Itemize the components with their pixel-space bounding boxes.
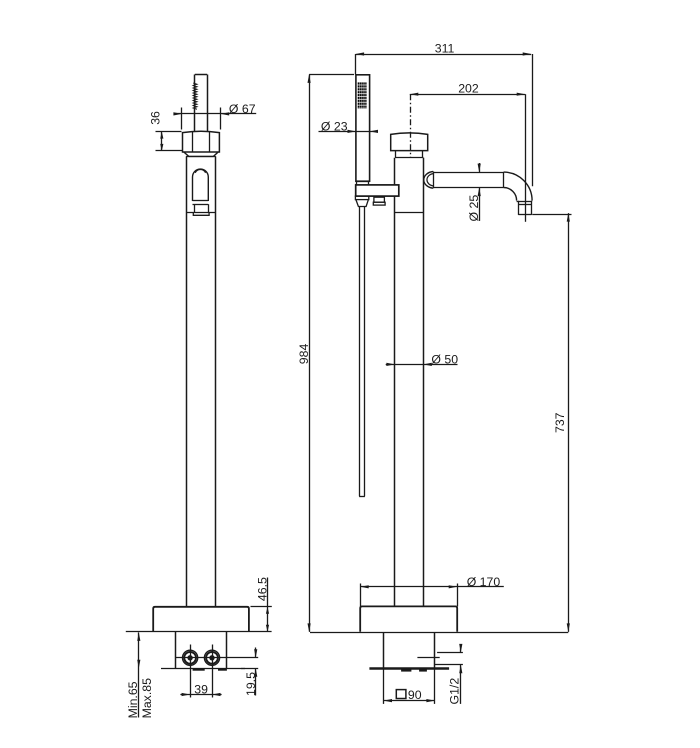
svg-text:Max.85: Max.85	[140, 678, 154, 718]
svg-text:39: 39	[194, 682, 208, 696]
svg-text:19.5: 19.5	[244, 672, 258, 696]
svg-text:Ø 23: Ø 23	[321, 120, 348, 134]
svg-text:Ø 25: Ø 25	[467, 195, 481, 222]
svg-text:984: 984	[297, 344, 311, 365]
svg-text:311: 311	[435, 42, 455, 56]
svg-text:Ø 67: Ø 67	[229, 102, 256, 116]
svg-text:737: 737	[553, 412, 567, 433]
svg-text:90: 90	[408, 688, 422, 702]
svg-text:36: 36	[148, 111, 162, 125]
svg-text:202: 202	[458, 81, 479, 95]
svg-text:Min.65: Min.65	[126, 681, 140, 718]
svg-text:46.5: 46.5	[255, 577, 269, 601]
svg-text:Ø 170: Ø 170	[467, 575, 501, 589]
svg-text:Ø 50: Ø 50	[431, 352, 458, 366]
svg-text:G1/2: G1/2	[448, 678, 462, 705]
